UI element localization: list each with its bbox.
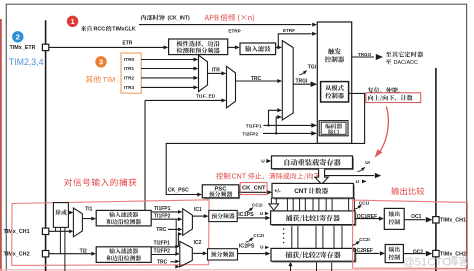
svg-text:TI2FP2: TI2FP2 bbox=[242, 131, 258, 137]
svg-text:IC1PS: IC1PS bbox=[238, 212, 254, 218]
mux TRGI select bbox=[282, 41, 293, 120]
pad TIMx_CH1 left bbox=[42, 228, 48, 234]
wire OC1REF bbox=[355, 214, 384, 221]
box PSC prescaler bbox=[202, 185, 240, 199]
wire slave ctrl to CK_PSC bbox=[166, 93, 364, 194]
wire TI2FP2 bbox=[151, 248, 180, 256]
mux TRC select bbox=[227, 66, 236, 108]
wire TRGO bbox=[352, 52, 383, 60]
wire TRGI bbox=[293, 78, 317, 87]
red box CK_CNT bbox=[240, 183, 267, 195]
watermark 51CTO bbox=[403, 256, 469, 268]
svg-text:ITR0: ITR0 bbox=[124, 57, 135, 62]
mux ITR select bbox=[199, 55, 208, 91]
wire ITR bbox=[208, 67, 227, 75]
svg-text:OC1: OC1 bbox=[411, 214, 422, 220]
label trigger controller bbox=[325, 48, 344, 62]
svg-text:TRGI: TRGI bbox=[296, 78, 309, 84]
svg-text:ITR2: ITR2 bbox=[124, 76, 135, 81]
svg-text:ETR: ETR bbox=[122, 40, 132, 46]
pad TIMx_CH2 left bbox=[42, 251, 48, 257]
mux IC2 select bbox=[180, 241, 193, 266]
svg-text:CK_PSC: CK_PSC bbox=[168, 187, 189, 193]
svg-text:TIMx_CH1: TIMx_CH1 bbox=[440, 218, 466, 224]
wire TI2FP1 bbox=[151, 241, 180, 249]
svg-text:TIMx_CH1: TIMx_CH1 bbox=[4, 229, 30, 235]
box trigger controller outline bbox=[317, 22, 351, 143]
label from RCC TIMxCLK bbox=[81, 26, 136, 33]
box prescaler IC2 bbox=[208, 249, 238, 260]
svg-text:IC2: IC2 bbox=[194, 240, 202, 246]
svg-text:TRGO: TRGO bbox=[358, 52, 372, 57]
svg-text:TI2FP1: TI2FP1 bbox=[154, 241, 171, 247]
annotation APB multiply red bbox=[205, 14, 255, 22]
event CC1I left bbox=[245, 203, 262, 212]
bus below CCR2 bbox=[288, 261, 331, 271]
svg-text:OC2: OC2 bbox=[413, 249, 424, 255]
svg-text:DAC/ADC: DAC/ADC bbox=[394, 60, 418, 66]
wire TI1F_ED riser bbox=[144, 100, 146, 210]
mux IC2 fourth arrow bbox=[175, 265, 179, 269]
box capture/compare register 1 bbox=[271, 211, 357, 226]
svg-text:TI1FP1: TI1FP1 bbox=[154, 206, 171, 212]
box input filter edge detector 1 bbox=[96, 210, 151, 226]
bottom pink line bbox=[0, 269, 474, 270]
svg-text:CC1I: CC1I bbox=[252, 203, 262, 208]
badge 3 orange circle bbox=[95, 56, 106, 67]
wire IC2 bbox=[192, 240, 207, 255]
svg-text:3: 3 bbox=[99, 58, 103, 67]
wire OC2REF bbox=[353, 248, 385, 256]
wire ITR1 bbox=[124, 66, 198, 71]
pad TIMx_CH1 right bbox=[433, 217, 439, 223]
svg-text:TIM2,3,4: TIM2,3,4 bbox=[9, 57, 44, 67]
bus CNT to capture/compare 1 bbox=[269, 198, 355, 211]
mux TI1 select bbox=[73, 208, 82, 237]
svg-text:2: 2 bbox=[16, 33, 20, 42]
wire CH1 to mux bbox=[49, 229, 74, 233]
box XOR bbox=[53, 203, 68, 228]
box auto-reload register bbox=[272, 156, 354, 170]
svg-text:ITR: ITR bbox=[212, 67, 220, 73]
wire TRC ch1 bbox=[156, 227, 182, 233]
pad TIMx_CH2 right bbox=[433, 250, 439, 256]
left device rail bbox=[45, 20, 47, 271]
red box capture annotation bbox=[12, 200, 209, 266]
red box up/down count bbox=[366, 93, 421, 103]
wire TI2FP2 to encoder bbox=[242, 131, 317, 137]
annotation capture of input red bbox=[64, 178, 136, 186]
svg-text:UI: UI bbox=[365, 160, 370, 165]
wire crossover riser A bbox=[175, 219, 177, 254]
wire ETR bbox=[49, 40, 169, 49]
badge 1 red circle bbox=[67, 16, 78, 27]
badge 2 blue circle bbox=[12, 31, 23, 42]
svg-text:U: U bbox=[261, 158, 265, 164]
xor input risers bbox=[56, 227, 65, 271]
svg-text:CC1I: CC1I bbox=[359, 200, 369, 205]
svg-text:TI1: TI1 bbox=[85, 206, 92, 212]
svg-text:(CK_INT): (CK_INT) bbox=[168, 16, 190, 22]
wire TI1FP1 bbox=[151, 206, 182, 214]
annotation other TIM orange bbox=[86, 75, 115, 84]
wire IC1PS bbox=[237, 211, 270, 220]
event CC2I left bbox=[246, 233, 264, 242]
svg-text:CC2I: CC2I bbox=[253, 233, 263, 238]
wire OC1 bbox=[404, 214, 432, 223]
wire TI1F_ED bbox=[145, 93, 226, 102]
box capture/compare register 2 bbox=[271, 248, 356, 262]
wire TRC bbox=[236, 76, 283, 83]
svg-text:ITR3: ITR3 bbox=[124, 85, 135, 90]
svg-text:ETRF: ETRF bbox=[283, 28, 295, 33]
wire ITR0 bbox=[124, 57, 198, 62]
svg-text:TI1FP1: TI1FP1 bbox=[246, 123, 262, 129]
wire IC1 bbox=[192, 207, 208, 218]
svg-text:TGI: TGI bbox=[308, 64, 317, 70]
svg-text:ETRP: ETRP bbox=[228, 28, 240, 33]
wire TI2FP2 riser to TRGI mux bbox=[276, 117, 278, 133]
svg-text:CNT: CNT bbox=[232, 174, 247, 181]
svg-text:TI2FP2: TI2FP2 bbox=[154, 248, 171, 254]
box slave mode controller bbox=[321, 82, 349, 102]
svg-text:TRC: TRC bbox=[156, 227, 167, 233]
svg-text:CK_CNT: CK_CNT bbox=[242, 186, 266, 192]
wire TI1FP1 riser to TRGI mux bbox=[269, 110, 278, 125]
annotation control CNT red bbox=[216, 173, 320, 181]
svg-text:TIMx_ETR: TIMx_ETR bbox=[10, 45, 36, 51]
mux IC1 select bbox=[183, 209, 193, 236]
wire U event right bbox=[325, 173, 382, 178]
red curve arrow to CNT bbox=[380, 107, 389, 152]
wire U into auto-reload bbox=[261, 158, 271, 164]
svg-text:+/-: +/- bbox=[274, 189, 281, 195]
event UI auto-reload bbox=[357, 160, 369, 172]
pad TIMx_ETR bbox=[42, 44, 48, 50]
svg-text:TIMxCLK: TIMxCLK bbox=[112, 27, 135, 33]
svg-text:TI1FP2: TI1FP2 bbox=[154, 213, 171, 219]
svg-text:CC2I: CC2I bbox=[359, 237, 369, 242]
label CK_PSC bbox=[168, 187, 189, 193]
svg-text:IC2PS: IC2PS bbox=[239, 244, 255, 250]
svg-text:U: U bbox=[356, 179, 360, 185]
wire IC2PS bbox=[238, 244, 271, 256]
annotation output compare red bbox=[391, 187, 424, 195]
wire TRC ch2 bbox=[157, 259, 180, 265]
svg-text:TIMx_CH2: TIMx_CH2 bbox=[4, 252, 30, 258]
wire TI1FP1 to encoder bbox=[246, 123, 317, 129]
event CC1I right bbox=[354, 200, 369, 209]
svg-text:TIM: TIM bbox=[103, 75, 116, 84]
wire ITR2 bbox=[124, 76, 198, 81]
label internal clock CK_INT bbox=[141, 15, 190, 22]
wire TI1 bbox=[82, 206, 96, 220]
box CNT counter bbox=[272, 183, 355, 199]
label to other timers bbox=[386, 52, 423, 67]
box encoder interface bbox=[319, 121, 348, 136]
box polarity-select edge-detect prescaler bbox=[169, 39, 228, 55]
wire OC2 bbox=[403, 249, 432, 256]
wire ETRF bbox=[276, 28, 317, 49]
bus CCR1 to CCR2 bbox=[283, 225, 342, 249]
wire ETRP bbox=[228, 28, 241, 49]
wire crossover riser B bbox=[177, 234, 179, 247]
label reset enable line1 bbox=[368, 87, 400, 93]
wire CK_INT bbox=[139, 23, 317, 27]
svg-text:ITR1: ITR1 bbox=[124, 66, 135, 71]
box input filter edge detector 2 bbox=[96, 247, 151, 263]
wire TI1FP2 bbox=[151, 213, 182, 221]
event CC2I right bbox=[352, 237, 370, 245]
wire CK_CNT bbox=[239, 190, 272, 195]
event TGI bbox=[299, 64, 316, 75]
red box output compare annotation bbox=[353, 200, 468, 268]
right device rail bbox=[435, 68, 437, 271]
box output control 1 bbox=[384, 208, 404, 229]
box input filter ETR bbox=[240, 43, 276, 55]
wire XOR to mux bbox=[68, 211, 73, 215]
svg-text:TRC: TRC bbox=[157, 259, 168, 265]
wire TI2 bbox=[49, 248, 96, 255]
svg-text:@51CTO: @51CTO bbox=[403, 256, 451, 268]
svg-text:CNT: CNT bbox=[294, 188, 307, 195]
hollow update arrow reload to CNT bbox=[315, 169, 328, 185]
svg-text:RCC: RCC bbox=[94, 27, 106, 33]
wire ITR3 bbox=[124, 85, 198, 90]
left red margin bar bbox=[0, 19, 2, 271]
label U right bbox=[356, 179, 367, 185]
orange box around ITR inputs bbox=[121, 53, 141, 93]
svg-text:IC1: IC1 bbox=[194, 207, 202, 213]
box output control 2 bbox=[385, 245, 403, 263]
box prescaler IC1 bbox=[209, 210, 237, 221]
svg-text:TI1F_ED: TI1F_ED bbox=[196, 93, 216, 99]
